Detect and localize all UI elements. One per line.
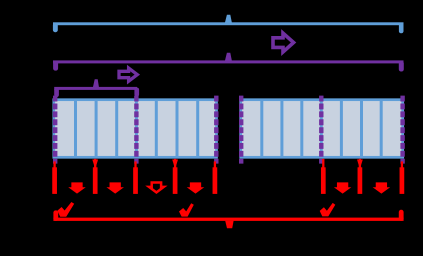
red outlined down arrow (149, 183, 164, 193)
right bar cell dividers (262, 101, 381, 157)
left segmented bar (54, 100, 217, 158)
dashed boundary right bar middle (319, 96, 323, 164)
left bar cell dividers (76, 101, 198, 157)
red brace left end curl (53, 210, 58, 221)
dashed boundary left bar middle (134, 96, 138, 164)
red brace right end curl (399, 210, 404, 221)
top blue brace (full span) (53, 15, 404, 34)
large purple block arrow (right) (273, 33, 294, 52)
small purple block arrow (right) (119, 68, 137, 81)
small brace horizontal line (54, 87, 137, 90)
blue brace left end curl (53, 23, 58, 32)
red checkmark 1 (57, 202, 74, 217)
purple brace horizontal line (53, 60, 404, 63)
blue brace right end curl (399, 23, 404, 34)
purple dashed block boundaries (55, 96, 402, 164)
red thin connectors below bars (53, 159, 403, 170)
small purple brace (first half of left bar) (54, 79, 139, 97)
small brace left end curl (54, 88, 59, 98)
red filled down arrows (68, 182, 390, 193)
small brace middle tick (93, 79, 99, 87)
purple brace left end curl (53, 61, 58, 71)
red checkmark 3 (320, 203, 336, 217)
dashed boundary right bar left edge (239, 96, 243, 164)
red connector triangles (92, 160, 363, 168)
blue brace middle tick (225, 15, 232, 23)
red brace horizontal line (53, 218, 403, 221)
bottom red brace (53, 210, 403, 229)
red brace middle tick (down) (225, 221, 233, 229)
red checkmark 2 (179, 203, 194, 216)
purple brace middle tick (225, 53, 232, 61)
purple brace right end curl (399, 61, 404, 72)
right segmented bar (241, 100, 403, 158)
small brace right end curl (134, 88, 139, 97)
blue brace horizontal line (53, 22, 404, 25)
red thick tick marks (52, 167, 404, 194)
purple brace (full span) (53, 53, 404, 72)
dashed boundary left bar right edge (214, 96, 218, 164)
dashed boundary left bar left edge (53, 96, 57, 164)
dashed boundary right bar right edge (400, 96, 404, 164)
